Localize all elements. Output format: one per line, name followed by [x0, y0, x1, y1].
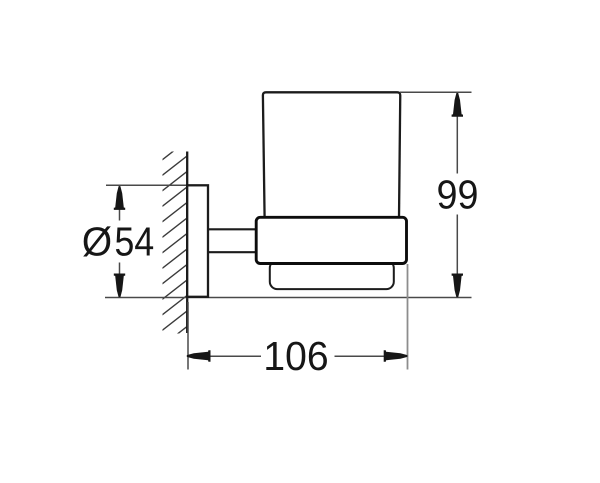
wall hatching: [158, 138, 190, 349]
dimension 99 line lower segment: [456, 215, 458, 298]
arm bottom line: [208, 251, 258, 253]
arm top line: [208, 228, 258, 230]
dimension 054 arrow up: [114, 186, 125, 210]
glass bottom: [270, 261, 394, 290]
dimension 054 top extension line: [106, 184, 187, 186]
dimension 99 line upper segment: [456, 93, 458, 174]
dimension 054 line upper segment: [119, 186, 121, 221]
dimension 106 arrow left: [187, 350, 211, 361]
dimension 99 top extension line: [400, 91, 472, 93]
dimension 99 arrow down: [452, 274, 463, 298]
bottom extension line (shared by 054 and 99): [105, 297, 472, 299]
wall face line: [186, 152, 188, 334]
dimension 106 arrow right: [384, 350, 408, 361]
holder bracket: [256, 217, 406, 263]
dimension 054 label: [83, 226, 111, 256]
dimension 054 line lower segment: [119, 263, 121, 298]
dimension 99 label: [438, 180, 476, 209]
dimension 106 right extension line: [407, 264, 409, 370]
dimension 106 line right segment: [335, 355, 407, 357]
glass body: [263, 92, 400, 218]
dimension 106 left extension line: [187, 302, 189, 370]
dimension 054 arrow down: [114, 274, 125, 298]
dimension 106 line left segment: [189, 355, 262, 357]
wall plate: [187, 185, 208, 296]
dimension 106 label: [266, 342, 327, 371]
dimension 99 arrow up: [452, 93, 463, 117]
